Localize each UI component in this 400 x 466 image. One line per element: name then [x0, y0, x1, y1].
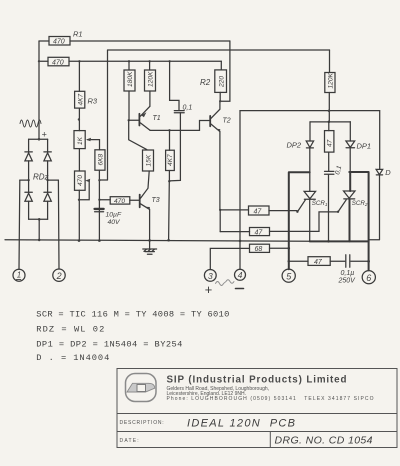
svg-text:+: + [42, 130, 47, 140]
wire thick cathode bus [310, 241, 369, 270]
bridge rectifier RDZ [20, 130, 59, 240]
terminal 1 [13, 269, 25, 281]
svg-text:4K7: 4K7 [77, 93, 84, 105]
coil squiggle [20, 120, 41, 127]
wiper arrow of 1K [86, 138, 100, 150]
diode D [369, 168, 392, 240]
svg-text:6: 6 [366, 273, 371, 283]
wire R1 rail down to R2 bottom [219, 41, 230, 102]
node junctions top [38, 60, 171, 62]
SCR2 [344, 191, 368, 241]
resistor 1K preset [74, 131, 85, 149]
resistor R2 220 [200, 61, 227, 101]
svg-text:47: 47 [254, 209, 263, 216]
wiper arrow of 470 [80, 179, 90, 200]
svg-text:1K: 1K [77, 136, 84, 145]
wire divider rail [69, 60, 221, 62]
svg-text:0,1: 0,1 [183, 105, 193, 112]
svg-text:RDZ = WL 02: RDZ = WL 02 [36, 325, 104, 335]
wire R1 top rail [70, 40, 230, 42]
wire 1K to 470 [78, 149, 80, 171]
wire T2 emitter down [219, 209, 221, 232]
wire DP rail [310, 121, 350, 123]
resistor 6K8 [95, 150, 105, 170]
svg-text:IDEAL 120N PCB: IDEAL 120N PCB [187, 418, 295, 430]
terminal 2 [53, 269, 65, 281]
svg-text:T1: T1 [153, 115, 161, 122]
svg-text:DP2: DP2 [287, 141, 302, 150]
terminal 4 [235, 269, 246, 280]
capacitor 0,1 250V [338, 255, 369, 285]
svg-text:47: 47 [255, 229, 264, 236]
svg-text:15K: 15K [145, 154, 152, 166]
svg-text:SCR2: SCR2 [352, 200, 368, 207]
main ground bus [5, 239, 310, 242]
terminal 6 [362, 271, 375, 284]
svg-text:68: 68 [255, 246, 263, 253]
wire terminal1 lead [18, 180, 21, 269]
wire 6K8 bottom chain [98, 170, 101, 242]
svg-text:DESCRIPTION:: DESCRIPTION: [120, 420, 165, 426]
wire sync line [99, 50, 329, 180]
svg-text:4K7: 4K7 [167, 154, 174, 166]
svg-text:RDz: RDz [33, 173, 49, 182]
company text [120, 375, 374, 445]
transistor T3 [140, 171, 160, 242]
wire 180K to T1 base [128, 91, 139, 122]
svg-text:40V: 40V [108, 219, 122, 226]
resistor R3 4K7 [75, 61, 98, 108]
svg-text:47: 47 [327, 139, 334, 147]
legend text [36, 310, 229, 363]
resistor 120K sync [325, 50, 335, 123]
diode DP1 [346, 122, 371, 172]
wire box top edge and right edge [240, 111, 380, 170]
wire terminal4 to box top [239, 111, 242, 270]
svg-text:470: 470 [53, 39, 65, 46]
svg-text:470: 470 [77, 175, 84, 186]
svg-text:DATE:: DATE: [120, 438, 140, 444]
svg-text:+: + [205, 282, 213, 297]
svg-text:120K: 120K [327, 72, 334, 88]
wire base divider to 15K [129, 120, 147, 149]
resistor 47 snubber [289, 257, 345, 266]
svg-text:R2: R2 [200, 78, 211, 87]
svg-text:Phone: LOUGHBOROUGH (0509) 503: Phone: LOUGHBOROUGH (0509) 503141 TELEX … [167, 396, 374, 402]
svg-text:0,1µ: 0,1µ [341, 270, 355, 277]
node dot terminal6 branch [367, 260, 370, 263]
wire 470 bottom to bus [78, 190, 81, 242]
transistor T1 [139, 106, 160, 130]
wire T1 collector line [150, 121, 209, 132]
svg-text:DP1: DP1 [357, 142, 372, 151]
ground [143, 240, 157, 254]
transistor T2 [210, 101, 231, 210]
diode DP2 [287, 122, 314, 191]
resistor 470 second [39, 57, 69, 66]
svg-text:R1: R1 [73, 30, 83, 39]
svg-text:220: 220 [219, 76, 226, 88]
resistor R1 470 [39, 30, 83, 46]
wire supply rail left vertical [38, 41, 40, 139]
svg-text:SCR1: SCR1 [312, 200, 328, 207]
svg-text:2: 2 [56, 271, 62, 281]
resistor 120K at T1 [145, 61, 156, 106]
wire terminal2 lead [57, 180, 60, 269]
svg-text:10µF: 10µF [106, 212, 122, 219]
resistor 47 vertical [325, 122, 334, 171]
resistor 4K7 emitter [166, 130, 175, 241]
title block [117, 369, 397, 448]
resistor 470 at T3 base [99, 197, 139, 205]
svg-text:D: D [385, 168, 391, 177]
svg-text:470: 470 [52, 59, 64, 66]
svg-text:470: 470 [114, 198, 125, 205]
capacitor 0,1 snubber upper [325, 165, 344, 243]
svg-text:R3: R3 [88, 97, 98, 106]
resistor 470 vertical [75, 171, 86, 190]
svg-text:T3: T3 [152, 197, 160, 204]
terminal 5 [282, 269, 295, 282]
svg-text:3: 3 [208, 271, 213, 281]
capacitor 0,1 at T1 [169, 61, 192, 181]
svg-text:0,1: 0,1 [334, 165, 343, 176]
resistor 180K [124, 61, 135, 91]
capacitor 10uF electrolytic [95, 209, 122, 226]
svg-text:120K: 120K [147, 71, 154, 87]
svg-text:4: 4 [238, 270, 243, 280]
resistor 68 terminal3 [210, 244, 290, 269]
terminal 3 [204, 270, 216, 282]
svg-text:47: 47 [314, 259, 323, 266]
resistor 47 gate1 [220, 200, 305, 216]
resistor 15K [143, 150, 154, 171]
company logo [126, 374, 157, 402]
svg-text:DRG. NO. CD 1054: DRG. NO. CD 1054 [275, 435, 373, 447]
svg-text:250V: 250V [338, 278, 357, 285]
svg-text:6K8: 6K8 [97, 153, 104, 165]
polarity labels [205, 280, 244, 297]
svg-text:5: 5 [286, 271, 292, 281]
svg-text:D . = 1N4004: D . = 1N4004 [36, 353, 109, 363]
handwritten description [187, 418, 373, 447]
SCR1 [304, 191, 328, 241]
svg-text:T2: T2 [223, 118, 231, 125]
svg-text:DP1 = DP2 = 1N5404 = BY254: DP1 = DP2 = 1N5404 = BY254 [36, 340, 182, 350]
svg-text:180K: 180K [127, 71, 134, 87]
svg-text:SCR = TIC 116 M = TY 4008 =: SCR = TIC 116 M = TY 4008 = TY 6010 [36, 310, 229, 320]
resistor 47 gate2 [220, 200, 346, 237]
wire R3 to 1K [78, 108, 80, 131]
svg-text:1: 1 [17, 271, 21, 280]
wire thick mains loop [289, 172, 369, 269]
svg-text:SIP (Industrial Products) Limi: SIP (Industrial Products) Limited [167, 375, 347, 386]
node dots thick left [288, 260, 291, 263]
